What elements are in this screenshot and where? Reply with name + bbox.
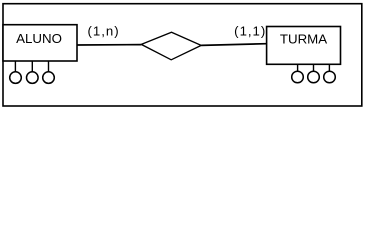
relationship diamond xyxy=(141,32,201,60)
wire attribute stem 3 (ALUNO) xyxy=(48,61,50,72)
wire attribute stem 2 (ALUNO) xyxy=(31,61,33,72)
entity ALUNO xyxy=(3,25,77,61)
wire attribute stem 1 (ALUNO) xyxy=(14,61,16,72)
attribute circle 2 (TURMA) xyxy=(308,71,320,83)
attribute circle 1 (TURMA) xyxy=(292,71,304,83)
svg-text:(1,n): (1,n) xyxy=(88,24,120,39)
svg-text:(1,1): (1,1) xyxy=(234,24,266,39)
wire attribute stem 2 (TURMA) xyxy=(313,64,315,71)
svg-text:ALUNO: ALUNO xyxy=(16,31,62,46)
outer frame xyxy=(3,4,362,106)
wire attribute stem 3 (TURMA) xyxy=(328,64,330,71)
attribute circle 3 (TURMA) xyxy=(324,71,336,83)
entity TURMA xyxy=(267,27,341,65)
wire attribute stem 1 (TURMA) xyxy=(297,64,299,71)
attribute circle 3 (ALUNO) xyxy=(43,72,55,84)
wire ALUNO to relationship xyxy=(77,44,141,46)
svg-text:TURMA: TURMA xyxy=(280,31,327,46)
wire relationship to TURMA xyxy=(201,44,266,46)
attribute circle 1 (ALUNO) xyxy=(10,72,22,84)
attribute circle 2 (ALUNO) xyxy=(27,72,39,84)
